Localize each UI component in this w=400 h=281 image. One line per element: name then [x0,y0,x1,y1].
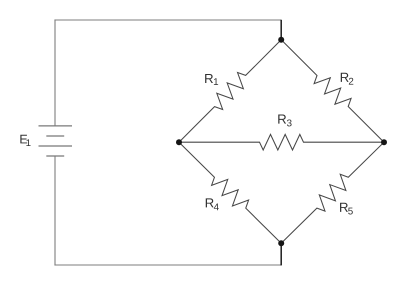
battery E1 (two-cell symbol, plates top to bottom: long, short, long, short) [39,126,73,156]
label R3 [278,115,291,127]
resistor R5 (right node to bottom node) [281,142,384,243]
label E1 [20,135,30,146]
resistor R2 (top node to right node) [281,40,384,142]
label R5 [340,203,353,215]
label R4 [206,198,219,210]
resistor R1 (top node to left node) [179,40,281,142]
node: right junction dot [381,139,387,145]
wire: vertical stub from top wire into top node [280,20,282,40]
node: top junction dot [278,37,284,43]
wire: left vertical from battery negative plate down to bottom wire [54,156,56,266]
label R1 [205,74,218,85]
node: bottom junction dot [278,240,284,246]
wire: left vertical from top wire down to battery positive plate [54,19,56,125]
resistor R4 (left node to bottom node) [179,142,281,243]
wire: bottom horizontal from left branch to below bottom node [54,264,281,266]
label R2 [341,73,354,85]
wire: vertical stub from bottom node down to bottom wire [280,243,282,265]
wire: top horizontal from left branch to above top node [54,19,281,21]
resistor R3 (left node to right node, horizontal bridge element) [179,134,384,150]
node: left junction dot [176,139,182,145]
